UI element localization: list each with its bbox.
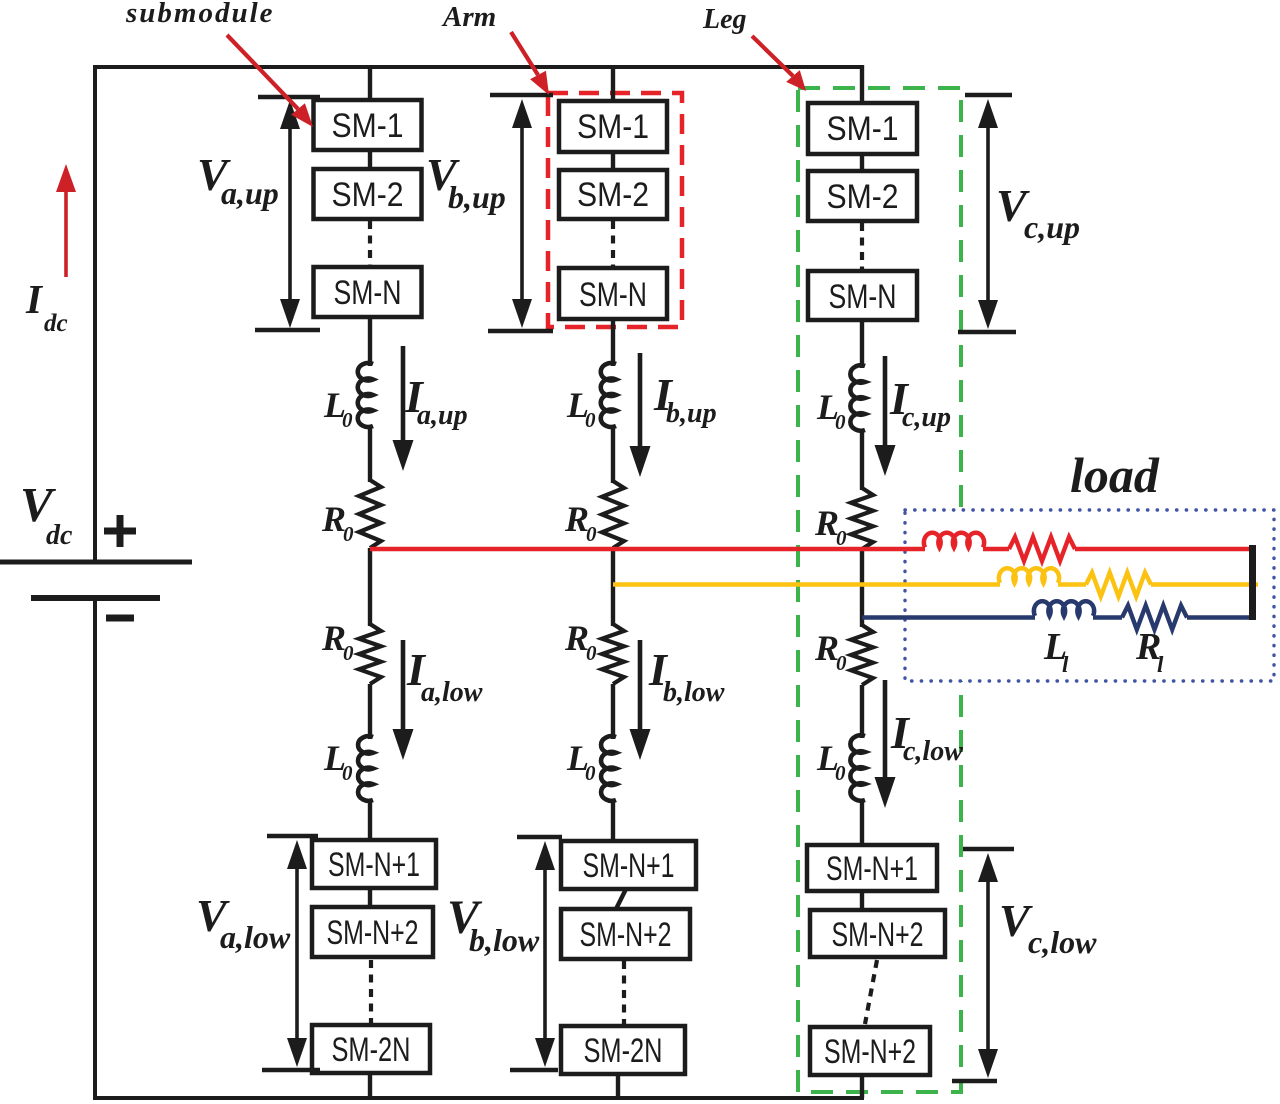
battery minus sign — [106, 615, 134, 622]
svg-text:SM-N+1: SM-N+1 — [328, 846, 420, 884]
submodule SM-N+2 (phase a lower) — [312, 907, 433, 957]
submodule SM-1 (phase c upper) — [808, 103, 917, 154]
wire between SM-N+1 and SM-N+2 (c) — [860, 891, 864, 911]
svg-text:SM-2: SM-2 — [577, 176, 649, 214]
wire resistor to inductor (b lower) — [611, 684, 615, 739]
svg-text:0: 0 — [836, 651, 847, 675]
wire between SM-N+1 and SM-N+2 (a) — [368, 888, 372, 908]
wire inductor to SM-N+1 (a) — [368, 800, 372, 842]
arm outline (red dashed box, phase b upper arm) — [548, 93, 682, 327]
svg-text:c,up: c,up — [1024, 209, 1080, 245]
svg-text:c,low: c,low — [1028, 924, 1097, 960]
submodule SM-N+2 (phase b lower) — [561, 909, 690, 959]
wire yellow between inductor and resistor — [1058, 582, 1086, 587]
svg-text:SM-N+2: SM-N+2 — [580, 916, 672, 954]
svg-text:0: 0 — [586, 641, 597, 665]
arm resistor R0 (phase c upper) — [851, 488, 873, 549]
svg-text:b,low: b,low — [663, 677, 725, 708]
svg-text:SM-N+2: SM-N+2 — [832, 916, 924, 954]
dotted continuation to SM-2N (a) — [369, 960, 373, 1024]
svg-text:SM-2N: SM-2N — [332, 1031, 411, 1069]
svg-text:b,low: b,low — [469, 922, 540, 958]
wire inductor to resistor (a upper) — [368, 426, 372, 482]
current arrow Ia,up — [401, 346, 406, 444]
wire inductor to resistor (c upper) — [860, 430, 864, 490]
dotted continuation SM-2..SM-N (a) — [368, 221, 372, 266]
current arrow Ib,up — [638, 353, 643, 450]
neutral bar (load right) — [1249, 545, 1256, 620]
svg-text:0: 0 — [342, 761, 353, 785]
svg-text:SM-2: SM-2 — [332, 176, 404, 214]
wire red to neutral bar — [1075, 547, 1254, 552]
submodule SM-1 (phase b upper) — [559, 101, 667, 152]
annotation arrow Leg — [752, 36, 793, 76]
svg-text:SM-N+1: SM-N+1 — [826, 850, 918, 888]
submodule SM-N+1 (phase a lower) — [312, 840, 436, 888]
submodule SM-N (phase b upper) — [559, 268, 667, 319]
svg-text:0: 0 — [585, 761, 596, 785]
svg-text:SM-1: SM-1 — [332, 107, 404, 145]
load box (blue dotted) — [905, 510, 1274, 681]
phase c load line (navy) — [862, 615, 1035, 620]
wire top dc bus — [93, 65, 864, 69]
wire phase-a upper drop from dc bus — [368, 65, 372, 102]
arm resistor R0 (phase b upper) — [602, 481, 624, 548]
submodule SM-2N (phase a lower) — [312, 1025, 430, 1073]
wire inductor to resistor (b upper) — [611, 426, 615, 483]
wire between SM-1 and SM-2 (c) — [860, 154, 864, 172]
svg-text:0: 0 — [586, 522, 597, 546]
svg-text:a,up: a,up — [417, 400, 468, 431]
svg-text:SM-N: SM-N — [334, 274, 402, 312]
svg-text:a,low: a,low — [421, 677, 483, 708]
svg-text:l: l — [1062, 652, 1069, 677]
svg-text:c,up: c,up — [902, 402, 951, 433]
wire bottom SM to bottom bus (c) — [860, 1075, 864, 1098]
svg-text:SM-N+2: SM-N+2 — [824, 1033, 916, 1071]
load resistor phase a (red) — [1009, 537, 1075, 561]
arm inductor L0 (phase b upper) — [601, 363, 616, 427]
wire inductor to SM-N+1 (c) — [860, 800, 864, 847]
svg-text:submodule: submodule — [125, 0, 275, 29]
wire SM-N to arm inductor (b) — [611, 319, 615, 366]
wire SM-N to arm inductor (a) — [368, 317, 372, 366]
submodule SM-1 (phase a upper) — [314, 100, 422, 150]
svg-text:SM-N+1: SM-N+1 — [583, 847, 675, 885]
load inductor phase c (navy) — [1034, 601, 1094, 616]
dotted slanted continuation (c) — [865, 960, 877, 1024]
wire phase-b midpoint (node b) — [611, 548, 615, 626]
wire phase-b upper drop from dc bus — [611, 65, 615, 103]
arm resistor R0 (phase c lower) — [851, 625, 873, 685]
arm inductor L0 (phase a upper) — [358, 363, 373, 427]
svg-text:Arm: Arm — [441, 1, 496, 33]
load inductor phase a (red) — [924, 533, 984, 548]
svg-text:b,up: b,up — [666, 398, 717, 429]
wire left dc rail lower — [93, 598, 97, 1100]
svg-text:Leg: Leg — [702, 4, 747, 35]
arm inductor L0 (phase c lower) — [850, 735, 865, 800]
measurement arrow Vb,low — [517, 835, 562, 839]
leg outline (green dashed box, phase c) — [798, 88, 961, 1092]
measurement arrow Vb,up — [490, 93, 553, 97]
battery positive plate (long) — [0, 560, 192, 565]
submodule SM-N (phase a upper) — [314, 267, 422, 317]
dotted continuation to SM-2N (b) — [622, 961, 626, 1025]
current arrow Ic,low — [883, 680, 888, 781]
wire red between inductor and resistor — [983, 547, 1009, 552]
wire inductor to SM-N+1 (b) — [611, 800, 615, 842]
svg-text:0: 0 — [342, 408, 353, 432]
annotation arrow Arm — [511, 32, 538, 75]
submodule SM-N+1 (phase b lower) — [561, 841, 696, 889]
svg-text:dc: dc — [46, 520, 73, 551]
wire SM-2N to bottom bus (a) — [368, 1073, 372, 1098]
svg-text:0: 0 — [585, 408, 596, 432]
svg-text:0: 0 — [343, 641, 354, 665]
svg-text:SM-1: SM-1 — [827, 110, 899, 148]
svg-text:0: 0 — [835, 761, 846, 785]
svg-text:a,up: a,up — [221, 175, 279, 211]
wire SM-2N to bottom bus (b) — [616, 1074, 620, 1098]
svg-text:SM-N+2: SM-N+2 — [327, 914, 419, 952]
current arrow Ia,low — [401, 640, 406, 733]
arm resistor R0 (phase a upper) — [359, 480, 381, 548]
wire phase-c midpoint (node c) — [860, 549, 864, 627]
submodule SM-N+1 (phase c lower) — [807, 845, 937, 891]
load resistor phase c (navy) — [1122, 606, 1187, 630]
arm resistor R0 (phase b lower) — [602, 624, 624, 684]
wire between SM-1 and SM-2 (a) — [368, 150, 372, 170]
svg-text:dc: dc — [44, 310, 68, 337]
svg-text:load: load — [1070, 447, 1160, 503]
load resistor phase b (yellow) — [1086, 573, 1151, 597]
submodule SM-2 (phase c upper) — [808, 171, 917, 221]
wire between SM-1 and SM-2 (b) — [611, 152, 615, 171]
wire SM-N to arm inductor (c) — [860, 320, 864, 368]
annotation arrow submodule — [227, 35, 298, 109]
current arrow Idc (red, up) — [64, 190, 68, 277]
submodule SM-N (phase c upper) — [808, 271, 917, 320]
wire resistor to inductor (a lower) — [368, 684, 372, 739]
wire resistor to inductor (c lower) — [860, 685, 864, 738]
svg-text:I: I — [25, 276, 44, 322]
svg-text:0: 0 — [343, 522, 354, 546]
svg-text:SM-2N: SM-2N — [584, 1032, 663, 1070]
svg-text:c,low: c,low — [903, 736, 963, 767]
dotted continuation SM-2..SM-N (c) — [860, 223, 864, 270]
phase a load line (red) — [370, 547, 925, 552]
measurement arrow Va,low — [267, 834, 318, 838]
svg-text:SM-1: SM-1 — [577, 108, 649, 146]
measurement arrow Vc,low — [963, 847, 1014, 851]
wire yellow to neutral bar — [1151, 582, 1258, 587]
measurement arrow Vc,up — [965, 93, 1012, 97]
measurement arrow Va,up — [258, 95, 320, 99]
current arrow Ib,low — [638, 640, 643, 733]
submodule SM-N+2 bottom (phase c lower) — [810, 1027, 930, 1075]
wire navy to neutral bar — [1187, 615, 1254, 620]
svg-text:l: l — [1157, 652, 1164, 677]
battery plus sign — [104, 528, 136, 535]
arm inductor L0 (phase a lower) — [358, 736, 373, 801]
wire navy between inductor and resistor — [1093, 615, 1122, 620]
submodule SM-N+2 (phase c lower) — [810, 910, 945, 957]
svg-text:SM-N: SM-N — [829, 278, 897, 316]
wire bottom dc bus — [93, 1096, 864, 1100]
load inductor phase b (yellow) — [999, 568, 1059, 583]
arm inductor L0 (phase c upper) — [850, 365, 865, 430]
submodule SM-2 (phase a upper) — [314, 169, 422, 219]
arm inductor L0 (phase b lower) — [601, 736, 616, 801]
wire phase-a midpoint (node a) — [368, 548, 372, 626]
submodule SM-2 (phase b upper) — [559, 170, 667, 219]
wire left dc rail upper — [93, 65, 97, 562]
svg-text:a,low: a,low — [220, 919, 291, 955]
arm resistor R0 (phase a lower) — [359, 624, 381, 684]
svg-text:b,up: b,up — [448, 179, 506, 215]
svg-text:0: 0 — [836, 526, 847, 550]
submodule SM-2N (phase b lower) — [561, 1026, 685, 1074]
svg-text:SM-N: SM-N — [579, 276, 647, 314]
battery negative plate (short) — [31, 595, 160, 601]
phase b load line (yellow) — [613, 582, 1000, 587]
svg-text:SM-2: SM-2 — [827, 178, 899, 216]
wire between SM-N+1 and SM-N+2 (b) — [615, 889, 626, 911]
current arrow Ic,up — [883, 356, 888, 449]
wire phase-c upper drop from dc bus — [860, 65, 864, 105]
dotted continuation SM-2..SM-N (b) — [611, 221, 615, 267]
svg-text:0: 0 — [835, 410, 846, 434]
